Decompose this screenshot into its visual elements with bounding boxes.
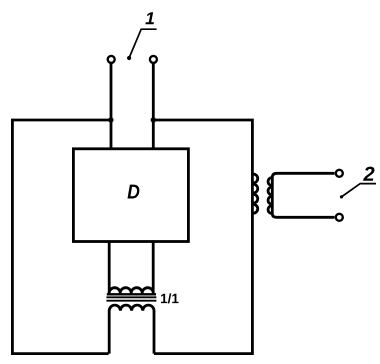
label 1 text <box>145 12 154 24</box>
label 1 leader line <box>130 29 157 57</box>
box D (device) <box>73 149 188 242</box>
wire left loop (top-left segment, left side, bottom-left segment) <box>12 120 111 354</box>
label 2 leader dot <box>340 195 343 198</box>
junction node left <box>108 117 113 122</box>
label 2 leader line <box>342 184 376 197</box>
label 1 leader dot <box>127 56 131 60</box>
transformer T1 primary winding (top, humps up) with leads from box D <box>109 242 153 295</box>
terminal circle 2a <box>336 170 343 177</box>
wire terminal 1 right lead through node to box D <box>152 63 155 149</box>
transformer T1 winding base bar <box>107 293 156 295</box>
junction node right <box>151 117 156 122</box>
terminal circle 1b <box>150 56 157 63</box>
transformer T2 winding L2 frame with leads to terminals 2 <box>272 173 334 217</box>
terminal circle 2b <box>336 214 343 221</box>
wire terminal 1 left lead through node to box D <box>110 63 113 149</box>
label D text <box>128 185 140 199</box>
label 2 text <box>363 167 374 181</box>
label 1/1 text <box>161 293 179 303</box>
transformer T2 winding L1 humps on right-side wire <box>252 174 257 213</box>
transformer T1 secondary winding (bottom, humps up) with leads to bottom wire <box>109 305 154 354</box>
terminal circle 1a <box>108 56 115 63</box>
wire right loop top segment, right side, bottom-right segment <box>153 120 252 354</box>
transformer T1 core <box>106 297 156 300</box>
transformer T2 winding L2 humps <box>268 178 272 214</box>
